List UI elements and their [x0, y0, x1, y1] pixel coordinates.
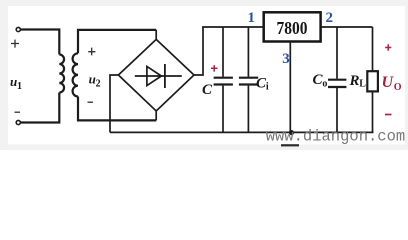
svg-text:3: 3: [282, 51, 290, 67]
svg-text:2: 2: [326, 10, 334, 26]
svg-text:U: U: [382, 74, 395, 91]
svg-text:C: C: [202, 82, 213, 98]
svg-text:o: o: [322, 78, 327, 89]
svg-text:O: O: [394, 82, 402, 93]
svg-text:www.diangon.com: www.diangon.com: [266, 127, 406, 145]
svg-text:L: L: [359, 79, 366, 90]
svg-text:i: i: [266, 82, 269, 93]
svg-text:R: R: [349, 73, 360, 89]
svg-text:2: 2: [96, 79, 101, 90]
svg-text:7800: 7800: [277, 18, 308, 38]
svg-text:1: 1: [248, 10, 256, 26]
svg-text:1: 1: [17, 81, 22, 92]
